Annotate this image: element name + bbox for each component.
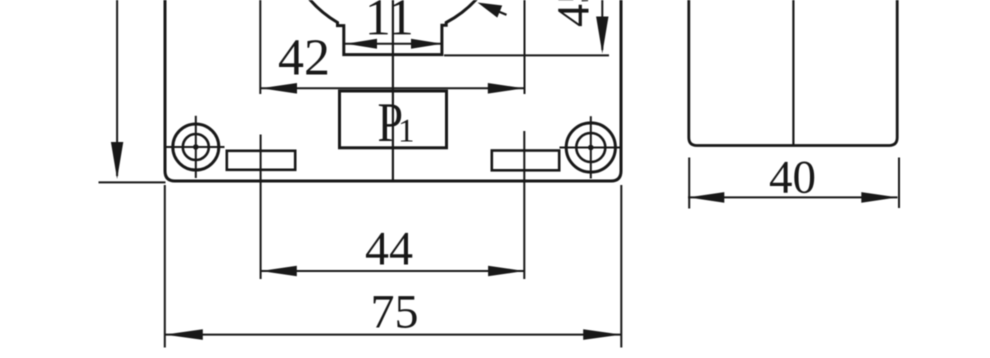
right mounting hole inner circle: [576, 133, 605, 162]
dimension 42 right arrow: [488, 83, 524, 94]
terminal box P1: [340, 91, 447, 148]
dimension 42 left arrow: [261, 83, 297, 94]
dimension 75 right arrow: [583, 329, 621, 340]
dimension 40 line: [688, 196, 898, 198]
dimension 75 extension line right: [620, 185, 622, 348]
front view vertical centerline: [392, 0, 394, 181]
dimension 42 extension line left: [259, 0, 261, 94]
vertical dimension 45 line with down arrow: [601, 0, 603, 50]
left mounting hole outer circle: [173, 124, 219, 170]
dimension 42 line: [261, 87, 524, 89]
dimension 75 left arrow: [165, 329, 203, 340]
text 44: [366, 233, 412, 265]
right hole horizontal crosshair: [560, 147, 622, 149]
dimension 44 line: [261, 270, 524, 272]
dimension 44 extension line left: [260, 135, 262, 280]
right mounting hole outer circle: [566, 123, 615, 172]
dimension 44 right arrow: [488, 266, 524, 277]
left slot: [227, 151, 295, 170]
dimension 11 line: [345, 43, 441, 45]
center hole arc with bottom notch: [309, 0, 478, 55]
left hole horizontal crosshair: [166, 146, 225, 148]
dimension 40 right arrow: [861, 192, 897, 203]
text 11: [369, 0, 410, 34]
text 40: [770, 162, 814, 194]
left hole vertical crosshair: [195, 116, 197, 178]
dimension 75 line: [165, 334, 621, 336]
text 75: [374, 296, 417, 328]
height dimension bottom extension line: [99, 181, 166, 183]
dimension 11 left arrow: [346, 39, 377, 49]
text 45 rotated: [558, 0, 589, 26]
side view body: [689, 0, 897, 146]
dimension 75 extension line left: [164, 185, 166, 348]
right slot: [492, 151, 559, 171]
text P subscript 1: [401, 120, 413, 142]
right hole vertical crosshair: [590, 116, 592, 178]
dimension 40 extension line right: [898, 158, 900, 209]
left mounting hole center dot: [193, 144, 199, 150]
dimension 40 left arrow: [688, 192, 724, 203]
text P: [379, 104, 401, 141]
dimension 11 right arrow: [411, 39, 442, 49]
dimension 40 extension line left: [688, 158, 690, 209]
left mounting hole inner circle: [183, 134, 209, 160]
height dimension line left with down arrow: [116, 0, 118, 176]
text 42: [279, 40, 327, 74]
side view middle parting line: [792, 0, 794, 146]
right mounting hole center dot: [588, 145, 594, 151]
diameter leader arrow at top right: [499, 12, 507, 15]
dimension 42 extension line right: [524, 0, 526, 94]
notch bottom extension line: [444, 54, 609, 56]
dimension 44 left arrow: [261, 266, 297, 277]
dimension 44 extension line right: [523, 131, 525, 279]
front view body outline: [165, 0, 621, 181]
